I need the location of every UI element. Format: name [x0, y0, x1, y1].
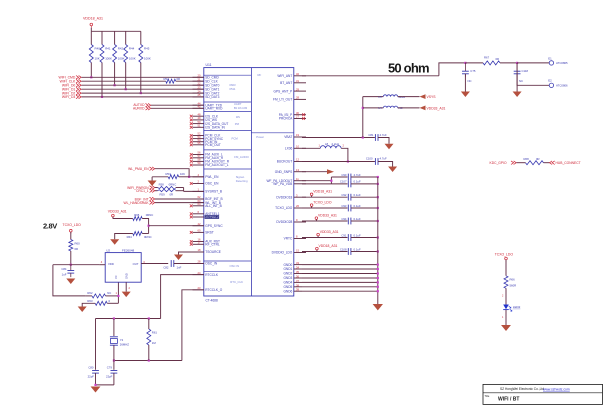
- svg-text:60: 60: [198, 229, 201, 233]
- svg-text:C81: C81: [368, 133, 374, 137]
- svg-text:Y2: Y2: [120, 338, 124, 342]
- wire TCXO EN node to oscillator pin 1: [116, 282, 120, 303]
- svg-text:0.1uF: 0.1uF: [354, 217, 361, 221]
- svg-text:DVDDIO18: DVDDIO18: [276, 195, 292, 199]
- resistor R58 0RNC (cross): [158, 183, 177, 191]
- wire oscillator pin4: [99, 264, 105, 266]
- svg-text:TCXO_LDO: TCXO_LDO: [63, 223, 82, 227]
- wire to antenna pad E1: [517, 62, 549, 64]
- svg-text:10K: 10K: [180, 172, 185, 176]
- svg-text:26MHZ: 26MHZ: [120, 343, 129, 347]
- svg-text:1M: 1M: [152, 341, 157, 345]
- svg-text:TCXO_LDO: TCXO_LDO: [495, 253, 514, 257]
- svg-text:VDD18_A31: VDD18_A31: [313, 190, 332, 194]
- svg-text:R59: R59: [160, 193, 166, 197]
- svg-text:R61: R61: [152, 331, 158, 335]
- label 2.8V: [43, 222, 57, 231]
- svg-text:R58: R58: [159, 183, 165, 187]
- svg-text:ALL_INT_B: ALL_INT_B: [205, 204, 221, 208]
- wire VBAT riser: [362, 97, 364, 138]
- capacitor C91 0.1uF decoupling: [302, 233, 379, 241]
- power VDD18_A31 (pull-up rail): [83, 17, 103, 32]
- svg-text:GPS_SYNC: GPS_SYNC: [205, 224, 223, 228]
- svg-text:UART: UART: [234, 102, 242, 106]
- resistor R44 100K pull-up: [124, 31, 136, 90]
- wire LED to ground: [502, 310, 506, 325]
- svg-text:R62: R62: [87, 291, 93, 295]
- capacitor C94 0.1uF decoupling: [302, 217, 379, 225]
- svg-text:VRTC: VRTC: [284, 237, 293, 241]
- svg-text:R45: R45: [144, 47, 150, 51]
- svg-text:OSC IN: OSC IN: [230, 264, 240, 268]
- capacitor C82 1nF coupling: [163, 260, 181, 269]
- capacitor C92 0.1uF decoupling: [302, 193, 379, 201]
- resistor R62 NC (EN pull-up): [85, 291, 118, 298]
- svg-text:LED2: LED2: [513, 305, 521, 309]
- svg-text:55: 55: [198, 141, 201, 145]
- svg-text:WF_PA_VDB: WF_PA_VDB: [273, 182, 292, 186]
- wire C118 node to E2: [517, 63, 549, 85]
- svg-text:ATC0806: ATC0806: [556, 83, 568, 87]
- resistor R53 100K pull-down on PWL_EN: [148, 172, 190, 186]
- svg-text:Detecting: Detecting: [236, 179, 248, 183]
- node WL_HANDSHAK: [123, 201, 203, 205]
- svg-text:51: 51: [198, 124, 201, 128]
- wire C82 to OSC_IN: [174, 263, 204, 265]
- svg-text:C75: C75: [470, 69, 476, 73]
- title block: [483, 384, 603, 404]
- svg-text:22pF: 22pF: [106, 375, 113, 379]
- svg-text:50: 50: [198, 120, 201, 124]
- ground LED: [501, 325, 511, 331]
- power VDD18_A31 at C92: [310, 190, 332, 198]
- svg-text:DVDDIO_LDO: DVDDIO_LDO: [272, 251, 293, 255]
- svg-text:WL_PMU_EN: WL_PMU_EN: [128, 167, 149, 171]
- ground C81: [385, 144, 394, 150]
- chip U1 left pin numbers: [198, 101, 201, 290]
- svg-text:R65: R65: [134, 213, 140, 217]
- crystal Y2 26MHZ: [110, 319, 129, 361]
- svg-text:RF: RF: [258, 73, 262, 77]
- svg-text:560R: 560R: [510, 284, 517, 288]
- inductor L4 to VDD33_A31: [363, 106, 420, 110]
- node WIFI_D2: [62, 89, 204, 95]
- ground C100: [388, 167, 397, 173]
- svg-text:VC: VC: [114, 275, 118, 279]
- label 50 ohm: [388, 60, 429, 75]
- wire GPS_SYNC net: [148, 225, 204, 227]
- svg-text:VSYS: VSYS: [427, 95, 437, 99]
- svg-text:50 ohm: 50 ohm: [388, 60, 429, 75]
- svg-text:R53: R53: [166, 172, 172, 176]
- chip U1 GND pins: [283, 261, 299, 293]
- capacitor C118 NC shunt: [514, 63, 529, 83]
- capacitor C80 22pF: [88, 319, 99, 385]
- wire TCXO VDD node: [53, 264, 99, 266]
- svg-text:100K: 100K: [105, 57, 112, 61]
- svg-text:VDD33_A31: VDD33_A31: [320, 230, 339, 234]
- svg-text:10K: 10K: [95, 57, 100, 61]
- chip U1 inner dividers: [204, 68, 294, 296]
- svg-text:UART_RXD: UART_RXD: [205, 107, 223, 111]
- svg-text:C107: C107: [340, 180, 347, 184]
- svg-text:8N 18-C2M: 8N 18-C2M: [234, 106, 247, 110]
- svg-text:C90: C90: [341, 173, 347, 177]
- svg-text:GND1: GND1: [283, 267, 292, 271]
- svg-text:www.szhwdz.com: www.szhwdz.com: [543, 387, 570, 391]
- wire crystal caps to ground: [94, 384, 114, 386]
- svg-text:TCXO_LDO: TCXO_LDO: [313, 200, 332, 204]
- svg-text:FM_AUDIO: FM_AUDIO: [234, 155, 249, 159]
- wire to R62: [465, 62, 483, 64]
- svg-text:R68: R68: [524, 157, 530, 161]
- wire TCXO EN loop: [53, 265, 86, 296]
- LED2: [503, 305, 520, 312]
- svg-text:E2: E2: [548, 79, 552, 83]
- node WIFI_D3: [62, 93, 204, 99]
- ground for C84: [66, 279, 75, 285]
- node BGF_INT: [135, 197, 204, 201]
- svg-text:GND2: GND2: [283, 272, 292, 276]
- inductor L8 2.2uH: [319, 142, 345, 148]
- svg-text:R66: R66: [510, 278, 516, 282]
- ground C75: [461, 74, 470, 97]
- svg-text:DVDDIO28: DVDDIO28: [276, 220, 292, 224]
- svg-text:4.7uF: 4.7uF: [354, 173, 361, 177]
- wire WF_PA_LDOOUT / WF_PA_VDB join: [302, 177, 333, 184]
- node HUB_CONNECT: [544, 161, 581, 165]
- svg-text:0RNC: 0RNC: [169, 183, 177, 187]
- power VDD33_A31 (right): [420, 106, 446, 111]
- svg-text:AURXD: AURXD: [133, 107, 145, 111]
- svg-text:0R: 0R: [75, 247, 79, 251]
- svg-text:ANTSEL2: ANTSEL2: [205, 215, 219, 219]
- svg-text:0RNC: 0RNC: [146, 213, 154, 217]
- svg-text:OSC_EN: OSC_EN: [205, 182, 219, 186]
- node WL_PMU_EN: [128, 167, 204, 178]
- wire L8 to BUCKOUT: [341, 148, 349, 162]
- svg-text:SRST: SRST: [205, 231, 214, 235]
- svg-text:LX06: LX06: [285, 147, 293, 151]
- svg-text:BUCKOUT: BUCKOUT: [277, 160, 293, 164]
- svg-text:NC: NC: [468, 79, 472, 83]
- antenna pad E2: [548, 79, 568, 88]
- power TCXO_LDO at C93: [310, 200, 332, 208]
- svg-text:4.7uF: 4.7uF: [380, 133, 387, 137]
- svg-text:I2S: I2S: [236, 115, 240, 119]
- svg-text:OSC_IN: OSC_IN: [205, 262, 218, 266]
- node AUTXD: [133, 103, 203, 107]
- chip U1 left pin names: [205, 76, 229, 293]
- svg-text:FM_LTI_OUT: FM_LTI_OUT: [273, 98, 292, 102]
- svg-text:SYSRST_B: SYSRST_B: [205, 190, 222, 194]
- capacitor C90 4.7uF decoupling: [331, 173, 379, 181]
- resistor R65 0RNC: [133, 213, 154, 233]
- wire WIFI_ANT 50ohm trace: [302, 63, 465, 76]
- svg-text:GPS_ANT_P: GPS_ANT_P: [274, 89, 293, 93]
- resistor R68 0R series: [524, 157, 544, 165]
- svg-text:0.1uF: 0.1uF: [354, 247, 361, 251]
- svg-text:ATC0805: ATC0805: [556, 61, 568, 65]
- svg-text:GND4: GND4: [283, 281, 292, 285]
- svg-text:GND3: GND3: [283, 276, 292, 280]
- svg-text:RTCCLK: RTCCLK: [205, 273, 219, 277]
- svg-text:SZ HongWei Electronic Co.,Ltd: SZ HongWei Electronic Co.,Ltd: [500, 387, 544, 391]
- svg-text:HUB_CONNECT: HUB_CONNECT: [556, 161, 581, 165]
- node AURXD: [133, 107, 204, 111]
- ground crystal: [91, 387, 101, 393]
- svg-text:100K: 100K: [118, 57, 125, 61]
- svg-text:57: 57: [198, 154, 201, 158]
- ground C118: [513, 74, 522, 97]
- chip U1 left pin stubs: [193, 77, 204, 289]
- wire crystal top rail: [96, 317, 161, 319]
- resistor R41 100K pull-up: [100, 31, 112, 98]
- oscillator U2 FE26048 (26MHz TCXO): [101, 249, 145, 290]
- svg-text:C79: C79: [107, 366, 113, 370]
- power VDD33_A31 (OSC_EN select): [108, 210, 133, 219]
- svg-text:FE26048: FE26048: [122, 249, 135, 253]
- svg-text:R41: R41: [105, 47, 111, 51]
- svg-text:0.1uF: 0.1uF: [354, 193, 361, 197]
- svg-text:TCXO_LDO: TCXO_LDO: [275, 206, 293, 210]
- svg-text:58: 58: [198, 158, 201, 162]
- svg-text:4.7uF: 4.7uF: [380, 157, 387, 161]
- chip U1 no-connect marks: [190, 113, 305, 245]
- svg-text:RTCCLK_O: RTCCLK_O: [205, 288, 222, 292]
- svg-text:0RNC: 0RNC: [144, 235, 152, 239]
- chip U1 right pin stubs: [294, 76, 306, 291]
- node WIFI_CLK: [60, 77, 204, 83]
- capacitor C107 0.1uF decoupling: [331, 180, 379, 188]
- wire oscillator OUT: [141, 263, 168, 265]
- node WIFI_D0: [62, 81, 204, 87]
- ground oscillator GND pin: [122, 282, 131, 297]
- svg-text:OUT: OUT: [133, 262, 139, 266]
- svg-text:WIFI_D3: WIFI_D3: [62, 95, 75, 99]
- power TCXO_LDO: [63, 223, 82, 239]
- svg-text:R64: R64: [127, 235, 133, 239]
- svg-text:GND_SNPS: GND_SNPS: [275, 170, 293, 174]
- svg-text:C92: C92: [341, 193, 347, 197]
- wire R67 to C118 node: [500, 62, 518, 64]
- svg-text:E1: E1: [548, 56, 552, 60]
- svg-text:C84: C84: [61, 267, 67, 271]
- svg-text:PCM: PCM: [232, 137, 239, 141]
- svg-text:WIFI_ANT: WIFI_ANT: [277, 74, 292, 78]
- wire pull-up rail: [91, 30, 141, 32]
- wire RTCCLK_O to crystal bottom rail: [182, 290, 204, 361]
- svg-text:0R: 0R: [536, 157, 540, 161]
- svg-text:RTC_CLK: RTC_CLK: [230, 280, 243, 284]
- node WIFI_CMD: [59, 74, 204, 80]
- capacitor C79 22pF: [106, 361, 117, 385]
- svg-text:WIFI / BT: WIFI / BT: [498, 396, 519, 402]
- chip U1 MT6620 outline: [204, 63, 294, 302]
- svg-text:GND: GND: [125, 273, 129, 279]
- svg-text:VBAT: VBAT: [284, 135, 292, 139]
- svg-text:0R: 0R: [170, 193, 174, 197]
- svg-text:2.8V: 2.8V: [43, 222, 57, 231]
- wire RTCCLK to crystal top rail: [161, 275, 204, 319]
- svg-text:2.2uH: 2.2uH: [332, 142, 339, 146]
- svg-text:C108: C108: [340, 247, 347, 251]
- svg-text:NC: NC: [519, 79, 523, 83]
- chip U1 pin ANTSEL2 (highlighted): [205, 215, 220, 219]
- svg-text:RF_CTRL: RF_CTRL: [205, 243, 220, 247]
- power VDD33_A31 at C94: [315, 213, 337, 221]
- svg-text:PWL_EN: PWL_EN: [205, 175, 219, 179]
- svg-text:R52: R52: [164, 77, 170, 81]
- wire VBAT: [302, 136, 375, 138]
- svg-text:GND5: GND5: [283, 285, 292, 289]
- resistor R64 0RNC to ground: [110, 232, 151, 245]
- svg-text:C118: C118: [522, 69, 529, 73]
- svg-text:VDD33_A31: VDD33_A31: [318, 213, 337, 217]
- svg-text:100K: 100K: [144, 57, 151, 61]
- resistor R63 0 (EN pull-down): [78, 299, 119, 312]
- resistor R42 100K pull-up: [113, 31, 125, 86]
- svg-text:R63: R63: [87, 299, 93, 303]
- svg-text:L5: L5: [379, 95, 383, 99]
- svg-text:22pF: 22pF: [88, 375, 95, 379]
- svg-text:NC: NC: [107, 291, 111, 295]
- node WIFI_PWRON / CRC1_1 (crossed selection resistors R58 R59): [127, 186, 157, 193]
- wire GND_SNPS with arrow: [302, 169, 334, 174]
- svg-text:59: 59: [198, 161, 201, 165]
- svg-text:VDD18_A31: VDD18_A31: [319, 244, 338, 248]
- svg-text:VDD18_A31: VDD18_A31: [83, 17, 103, 21]
- ground main bus: [373, 304, 383, 310]
- svg-text:CT-4688: CT-4688: [206, 298, 218, 302]
- svg-text:Power: Power: [256, 135, 264, 139]
- svg-text:R60: R60: [75, 242, 81, 246]
- resistor R61 1M: [147, 319, 158, 361]
- svg-text:0.1uF: 0.1uF: [354, 180, 361, 184]
- wire ground bus vertical: [377, 177, 379, 304]
- svg-text:0511: 0511: [229, 87, 235, 91]
- capacitor C108 0.1uF decoupling: [302, 247, 379, 255]
- svg-text:C93: C93: [341, 204, 347, 208]
- svg-text:PM: PM: [235, 122, 240, 126]
- svg-text:R67: R67: [484, 56, 490, 60]
- resistor R52 0R series on WIFI_CLK: [164, 77, 181, 83]
- svg-text:100K: 100K: [129, 57, 136, 61]
- wire LX to inductor L8: [302, 147, 320, 149]
- capacitor C93 0.1uF decoupling: [302, 204, 379, 212]
- svg-text:C94: C94: [341, 217, 347, 221]
- svg-text:U11: U11: [206, 63, 212, 67]
- capacitor C75 NC shunt: [462, 62, 476, 83]
- svg-text:PCM_OUT: PCM_OUT: [205, 143, 221, 147]
- svg-text:49: 49: [198, 116, 201, 120]
- svg-text:C82: C82: [163, 265, 169, 269]
- svg-text:GND0: GND0: [283, 263, 292, 267]
- resistor R60 0R: [69, 240, 80, 266]
- svg-text:R42: R42: [118, 47, 124, 51]
- antenna pad E1: [548, 56, 568, 65]
- power VDD18_A31 at C108: [316, 244, 338, 252]
- svg-text:PRCRCA: PRCRCA: [279, 117, 293, 121]
- svg-text:1uF: 1uF: [62, 273, 67, 277]
- svg-text:C100: C100: [366, 157, 373, 161]
- resistor R40 10K pull-up: [89, 31, 100, 78]
- svg-text:VDD33_A31: VDD33_A31: [108, 210, 127, 214]
- resistor R45 100K pull-up: [139, 31, 151, 94]
- svg-text:L4: L4: [379, 106, 383, 110]
- svg-text:0R: 0R: [177, 77, 181, 81]
- svg-text:I2S_DATA_IN: I2S_DATA_IN: [205, 126, 225, 130]
- svg-text:FM_AUXOUT_L: FM_AUXOUT_L: [205, 163, 228, 167]
- svg-text:KDC_GPIO: KDC_GPIO: [490, 161, 507, 165]
- capacitor C81 4.7uF series to ground: [368, 133, 389, 144]
- svg-text:TSOURCE: TSOURCE: [205, 250, 221, 254]
- svg-text:C80: C80: [88, 366, 94, 370]
- svg-text:SD_DAT3: SD_DAT3: [205, 95, 219, 99]
- svg-text:0.1uF: 0.1uF: [354, 233, 361, 237]
- wire WIFI_PWRON merge to SYSRST_B: [176, 188, 204, 192]
- svg-text:L8: L8: [325, 142, 329, 146]
- resistor R67 0R series RF: [483, 56, 500, 65]
- svg-text:17: 17: [198, 241, 201, 245]
- svg-text:GND6: GND6: [283, 289, 292, 293]
- resistor R59 0R (cross): [158, 188, 176, 197]
- svg-text:C91: C91: [341, 233, 347, 237]
- chip U1 inner block labels: [229, 73, 264, 284]
- wire GND pin bus: [302, 264, 379, 293]
- svg-text:0R: 0R: [496, 57, 500, 61]
- capacitor C100 4.7uF series to ground: [366, 157, 393, 167]
- svg-text:R40: R40: [95, 47, 101, 51]
- svg-text:1nF: 1nF: [177, 265, 182, 269]
- svg-text:CRC1_1: CRC1_1: [136, 189, 149, 193]
- svg-text:48: 48: [198, 112, 201, 116]
- svg-text:R44: R44: [129, 47, 135, 51]
- svg-text:BT_ANT: BT_ANT: [280, 81, 292, 85]
- resistor R66 560R: [502, 276, 516, 305]
- power VSYS: [420, 94, 437, 99]
- capacitor C84 1uF: [61, 265, 74, 277]
- chip U1 right pin names: [266, 72, 299, 255]
- power TCXO_LDO (LED branch): [495, 253, 514, 276]
- svg-text:Title: Title: [485, 394, 490, 398]
- svg-text:VDD: VDD: [108, 262, 114, 266]
- wire BUCKOUT: [302, 161, 375, 163]
- node KDC_GPIO2: [490, 161, 526, 165]
- svg-text:WL_HANDSHAK: WL_HANDSHAK: [123, 201, 149, 205]
- svg-text:VDD33_A31: VDD33_A31: [427, 106, 446, 110]
- svg-text:0.1uF: 0.1uF: [354, 204, 361, 208]
- power VDD33_A31 at C91: [317, 230, 339, 238]
- svg-text:U2: U2: [106, 249, 110, 253]
- inductor L5 to VSYS: [363, 95, 420, 99]
- node WIFI_D1: [62, 85, 204, 91]
- wire TSOURCE to ground: [174, 252, 204, 260]
- wire crystal bottom rail: [113, 359, 182, 361]
